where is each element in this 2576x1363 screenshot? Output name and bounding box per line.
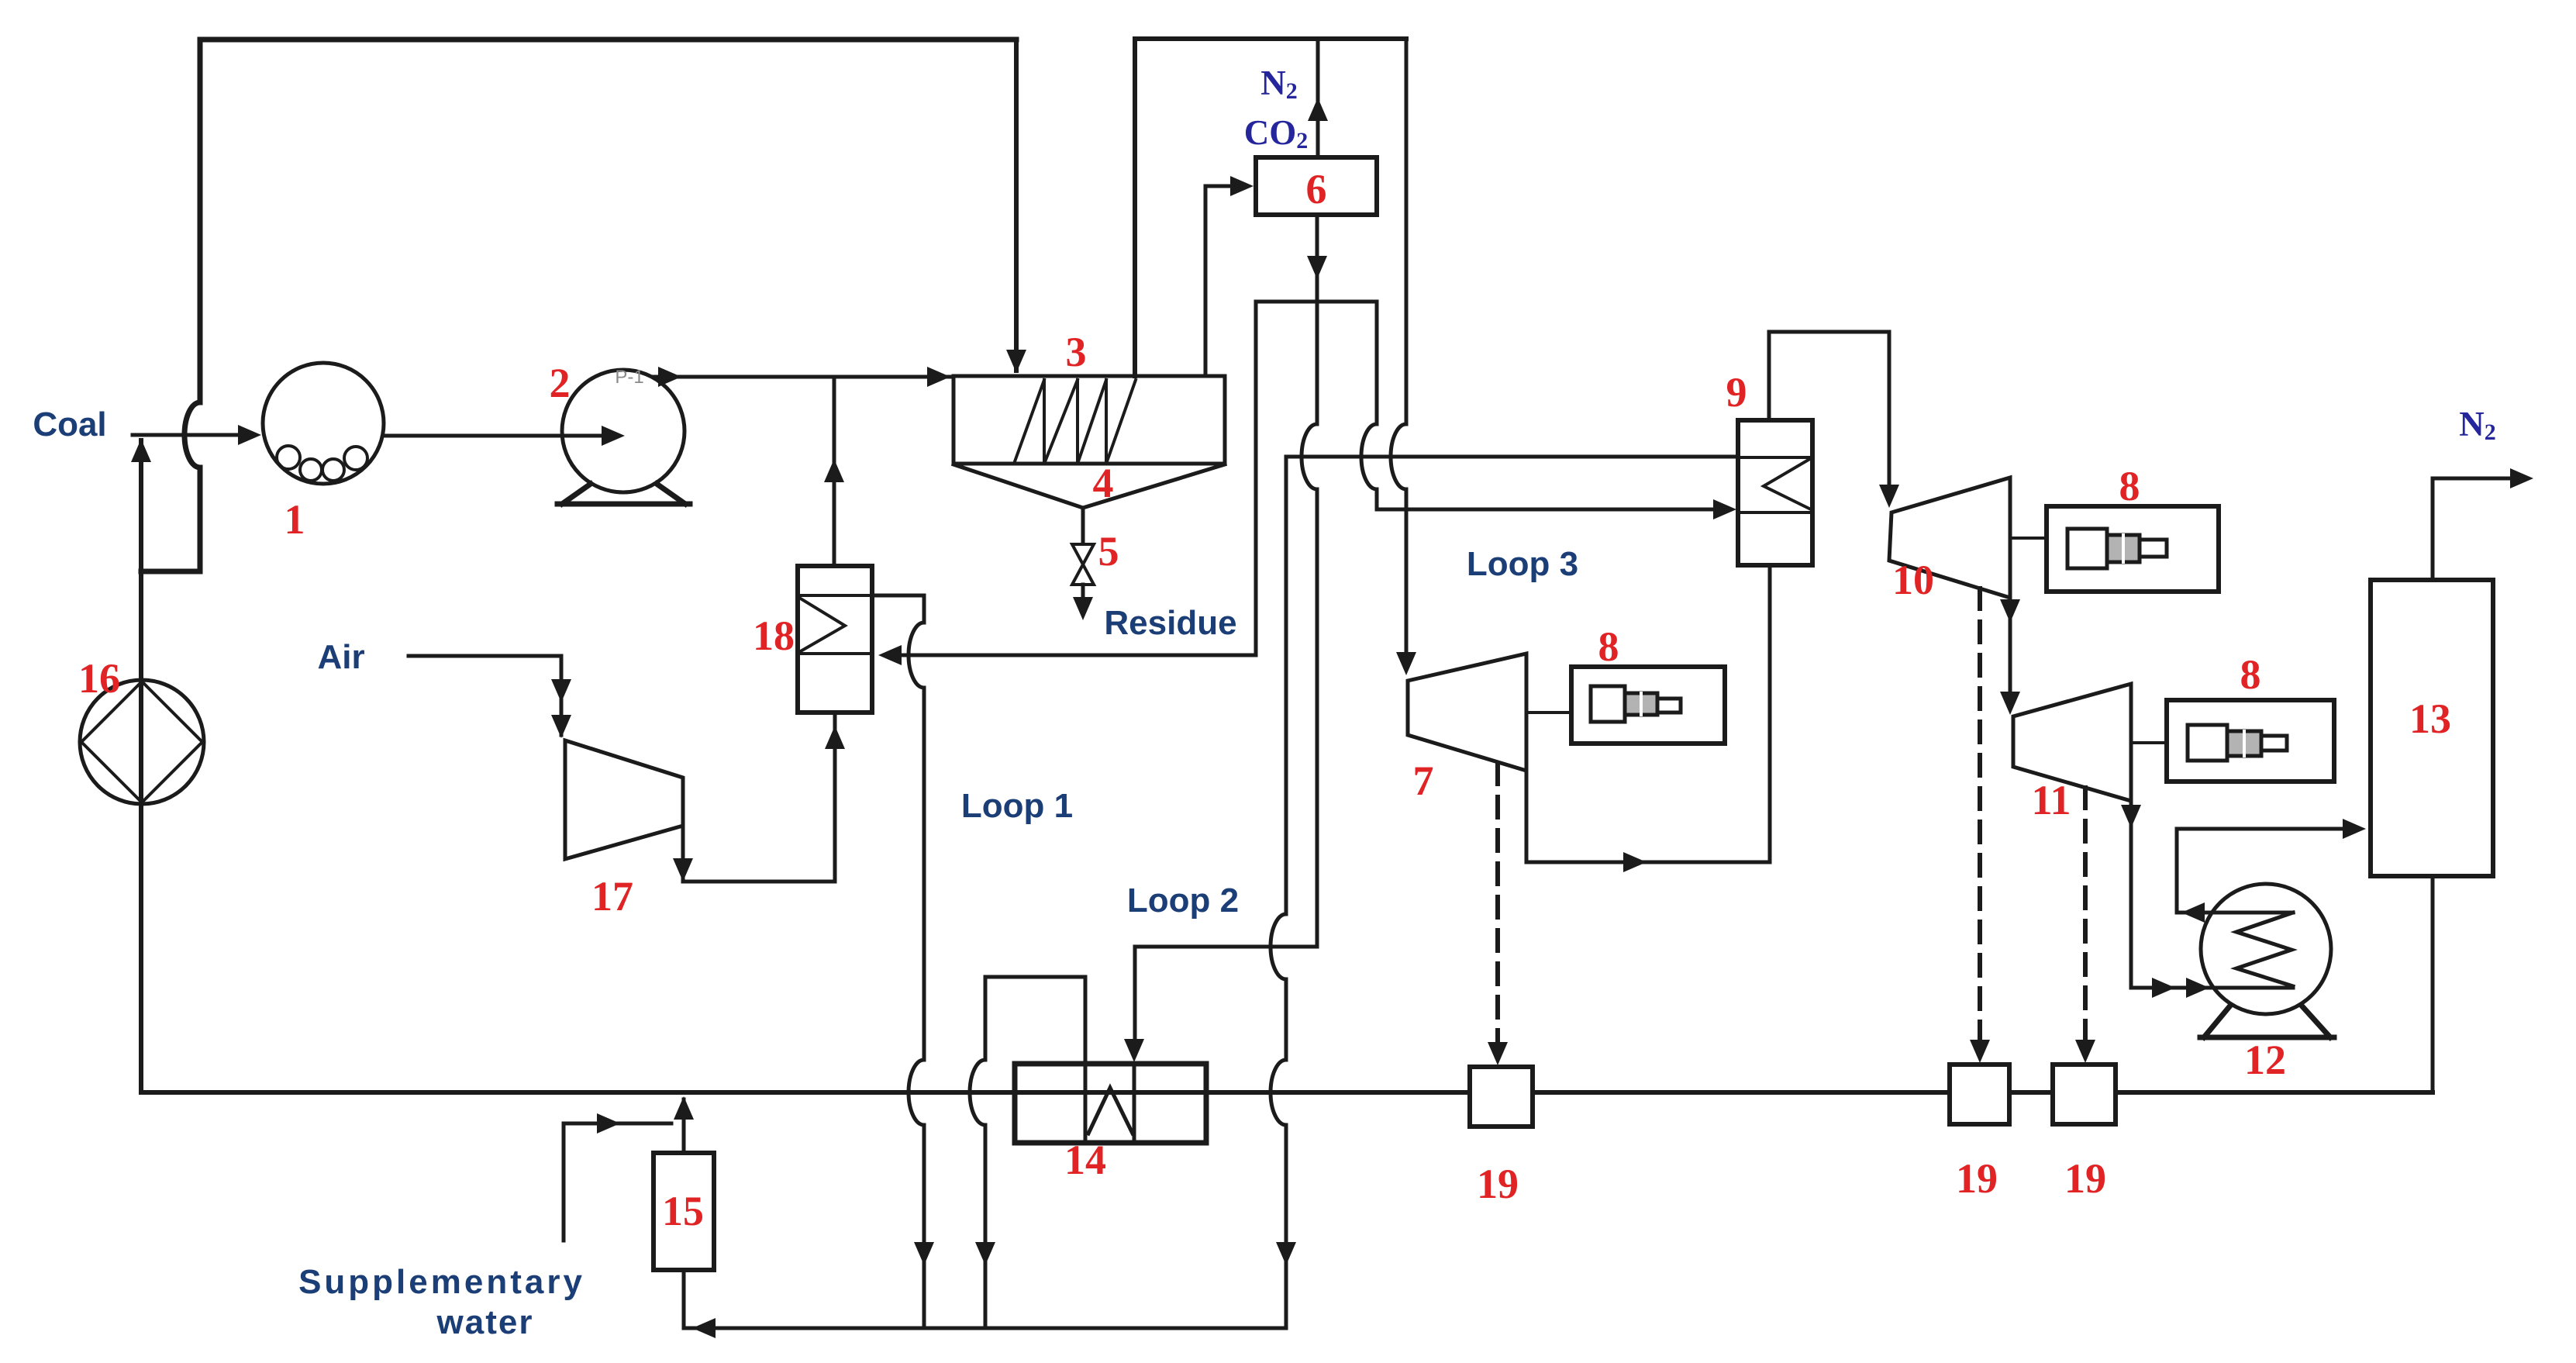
tank 15 [653, 1153, 714, 1270]
svg-text:6: 6 [1306, 166, 1327, 212]
svg-text:8: 8 [2240, 651, 2261, 698]
wire pump 2 outlet to box 3 [653, 375, 950, 379]
wire turbine 10 to turbine 11 [2009, 598, 2012, 707]
wire heat exchanger 9 feed upper [1286, 455, 1738, 459]
svg-text:P-1: P-1 [615, 367, 643, 388]
svg-text:N2: N2 [1260, 64, 1298, 104]
generator 8 c [2167, 700, 2334, 782]
shaft turbine 7 to generator 8a [1526, 711, 1571, 714]
svg-text:5: 5 [1098, 528, 1119, 575]
svg-text:8: 8 [2119, 463, 2140, 509]
separator funnel 4 [953, 464, 1225, 544]
turbine 7 [1408, 654, 1526, 771]
heat exchanger 9 [1738, 420, 1812, 565]
svg-text:16: 16 [78, 655, 120, 702]
svg-text:19: 19 [2064, 1155, 2106, 1202]
turbine 11 [2013, 684, 2131, 801]
wire N2 CO2 riser [1316, 39, 1320, 157]
svg-text:Supplementary: Supplementary [298, 1263, 585, 1301]
svg-text:15: 15 [662, 1188, 704, 1234]
generator 8 a [1571, 667, 1725, 744]
separator box 6 [1256, 157, 1377, 215]
compressor 17 [565, 740, 683, 859]
heater box 3 [953, 376, 1225, 464]
pump 16 [80, 680, 204, 804]
wire N2 U right leg to turbine 7 [1391, 39, 1406, 668]
wire N2 outlet of 13 [2433, 478, 2523, 580]
svg-text:N2: N2 [2459, 405, 2496, 445]
wire header under 6 [1256, 300, 1377, 304]
wire top line down to box 3 [1014, 40, 1019, 371]
wire dashed bleed from 10 [1978, 588, 1982, 1043]
svg-text:7: 7 [1413, 757, 1434, 804]
svg-text:8: 8 [1598, 623, 1619, 670]
ball mill 1 [263, 363, 384, 484]
svg-text:Air: Air [317, 638, 364, 676]
shaft turbine 10 to generator 8b [2010, 537, 2047, 540]
mixer box 19 b [1470, 1067, 1533, 1127]
wire loop1 downcomer x1620 [1254, 302, 1258, 655]
wire air inlet [409, 656, 561, 735]
wire 9 top to turbine 10 [1769, 332, 1889, 499]
svg-text:CO2: CO2 [1244, 113, 1309, 154]
svg-text:Loop 2: Loop 2 [1127, 882, 1239, 920]
wire cooler 12 to column 13 [2177, 829, 2358, 913]
svg-text:19: 19 [1956, 1155, 1998, 1202]
wire supplementary water [564, 1123, 671, 1241]
svg-text:18: 18 [753, 612, 795, 659]
cooler 12 [2201, 884, 2331, 1014]
wire tank 15 top [682, 1099, 686, 1153]
svg-text:12: 12 [2244, 1037, 2286, 1083]
svg-text:9: 9 [1726, 369, 1747, 416]
wire air heater feed riser [833, 377, 836, 566]
wire loop1 from 18 downcomer [872, 595, 924, 1328]
pump 2 [562, 370, 685, 492]
wire tank 15 bottom [682, 1270, 686, 1328]
svg-text:3: 3 [1066, 329, 1087, 375]
turbine 10 [1889, 478, 2010, 598]
heat exchanger 18 [798, 566, 872, 713]
wire column 13 bottom [2431, 876, 2435, 1092]
svg-text:10: 10 [1892, 557, 1934, 603]
wire coal riser / pump 16 line [139, 440, 143, 1092]
svg-text:17: 17 [591, 873, 633, 920]
valve 5 [1072, 544, 1094, 585]
shaft turbine 11 to generator 8c [2131, 741, 2167, 744]
wire loop3 feed x1776 [1361, 302, 1729, 509]
svg-text:water: water [436, 1303, 534, 1341]
wire N2 U top [1135, 39, 1406, 376]
wire dashed bleed from 11 [2083, 788, 2088, 1043]
svg-text:19: 19 [1477, 1161, 1519, 1207]
svg-text:13: 13 [2409, 695, 2451, 742]
mixer box 19 c [1950, 1065, 2009, 1124]
wire loop2 out of 14 [970, 977, 1085, 1328]
svg-text:14: 14 [1064, 1137, 1106, 1183]
wire loop1 return to exchanger 18 [885, 654, 1256, 657]
wire separator 6 bottom to loop2 [1135, 215, 1317, 1054]
svg-text:Loop 3: Loop 3 [1467, 545, 1578, 583]
wire dashed bleed from 7 [1495, 764, 1500, 1045]
svg-text:2: 2 [550, 360, 571, 406]
svg-text:11: 11 [2031, 777, 2071, 823]
svg-text:4: 4 [1093, 460, 1114, 506]
wire main cold header [141, 1090, 2433, 1095]
wire coal inlet [133, 433, 250, 437]
svg-text:Loop 1: Loop 1 [961, 787, 1073, 825]
wire box3 to separator 6 [1205, 186, 1245, 376]
wire downcomer x1659 to bottom header [684, 457, 1286, 1328]
cooler box 14 [1015, 1064, 1206, 1143]
wire mill to pump [384, 434, 616, 438]
wire turbine 11 outlet to cooler [2131, 801, 2293, 988]
svg-text:Residue: Residue [1104, 604, 1236, 642]
condenser column 13 [2371, 580, 2493, 876]
wire turbine 7 outlet to 9 [1526, 565, 1770, 862]
wire compressor 17 outlet to 18 [683, 713, 835, 882]
mixer box 19 d [2053, 1065, 2116, 1124]
svg-text:1: 1 [284, 496, 305, 543]
svg-text:Coal: Coal [33, 405, 106, 443]
wire top recycle line [141, 40, 1016, 571]
generator 8 b [2047, 506, 2219, 592]
